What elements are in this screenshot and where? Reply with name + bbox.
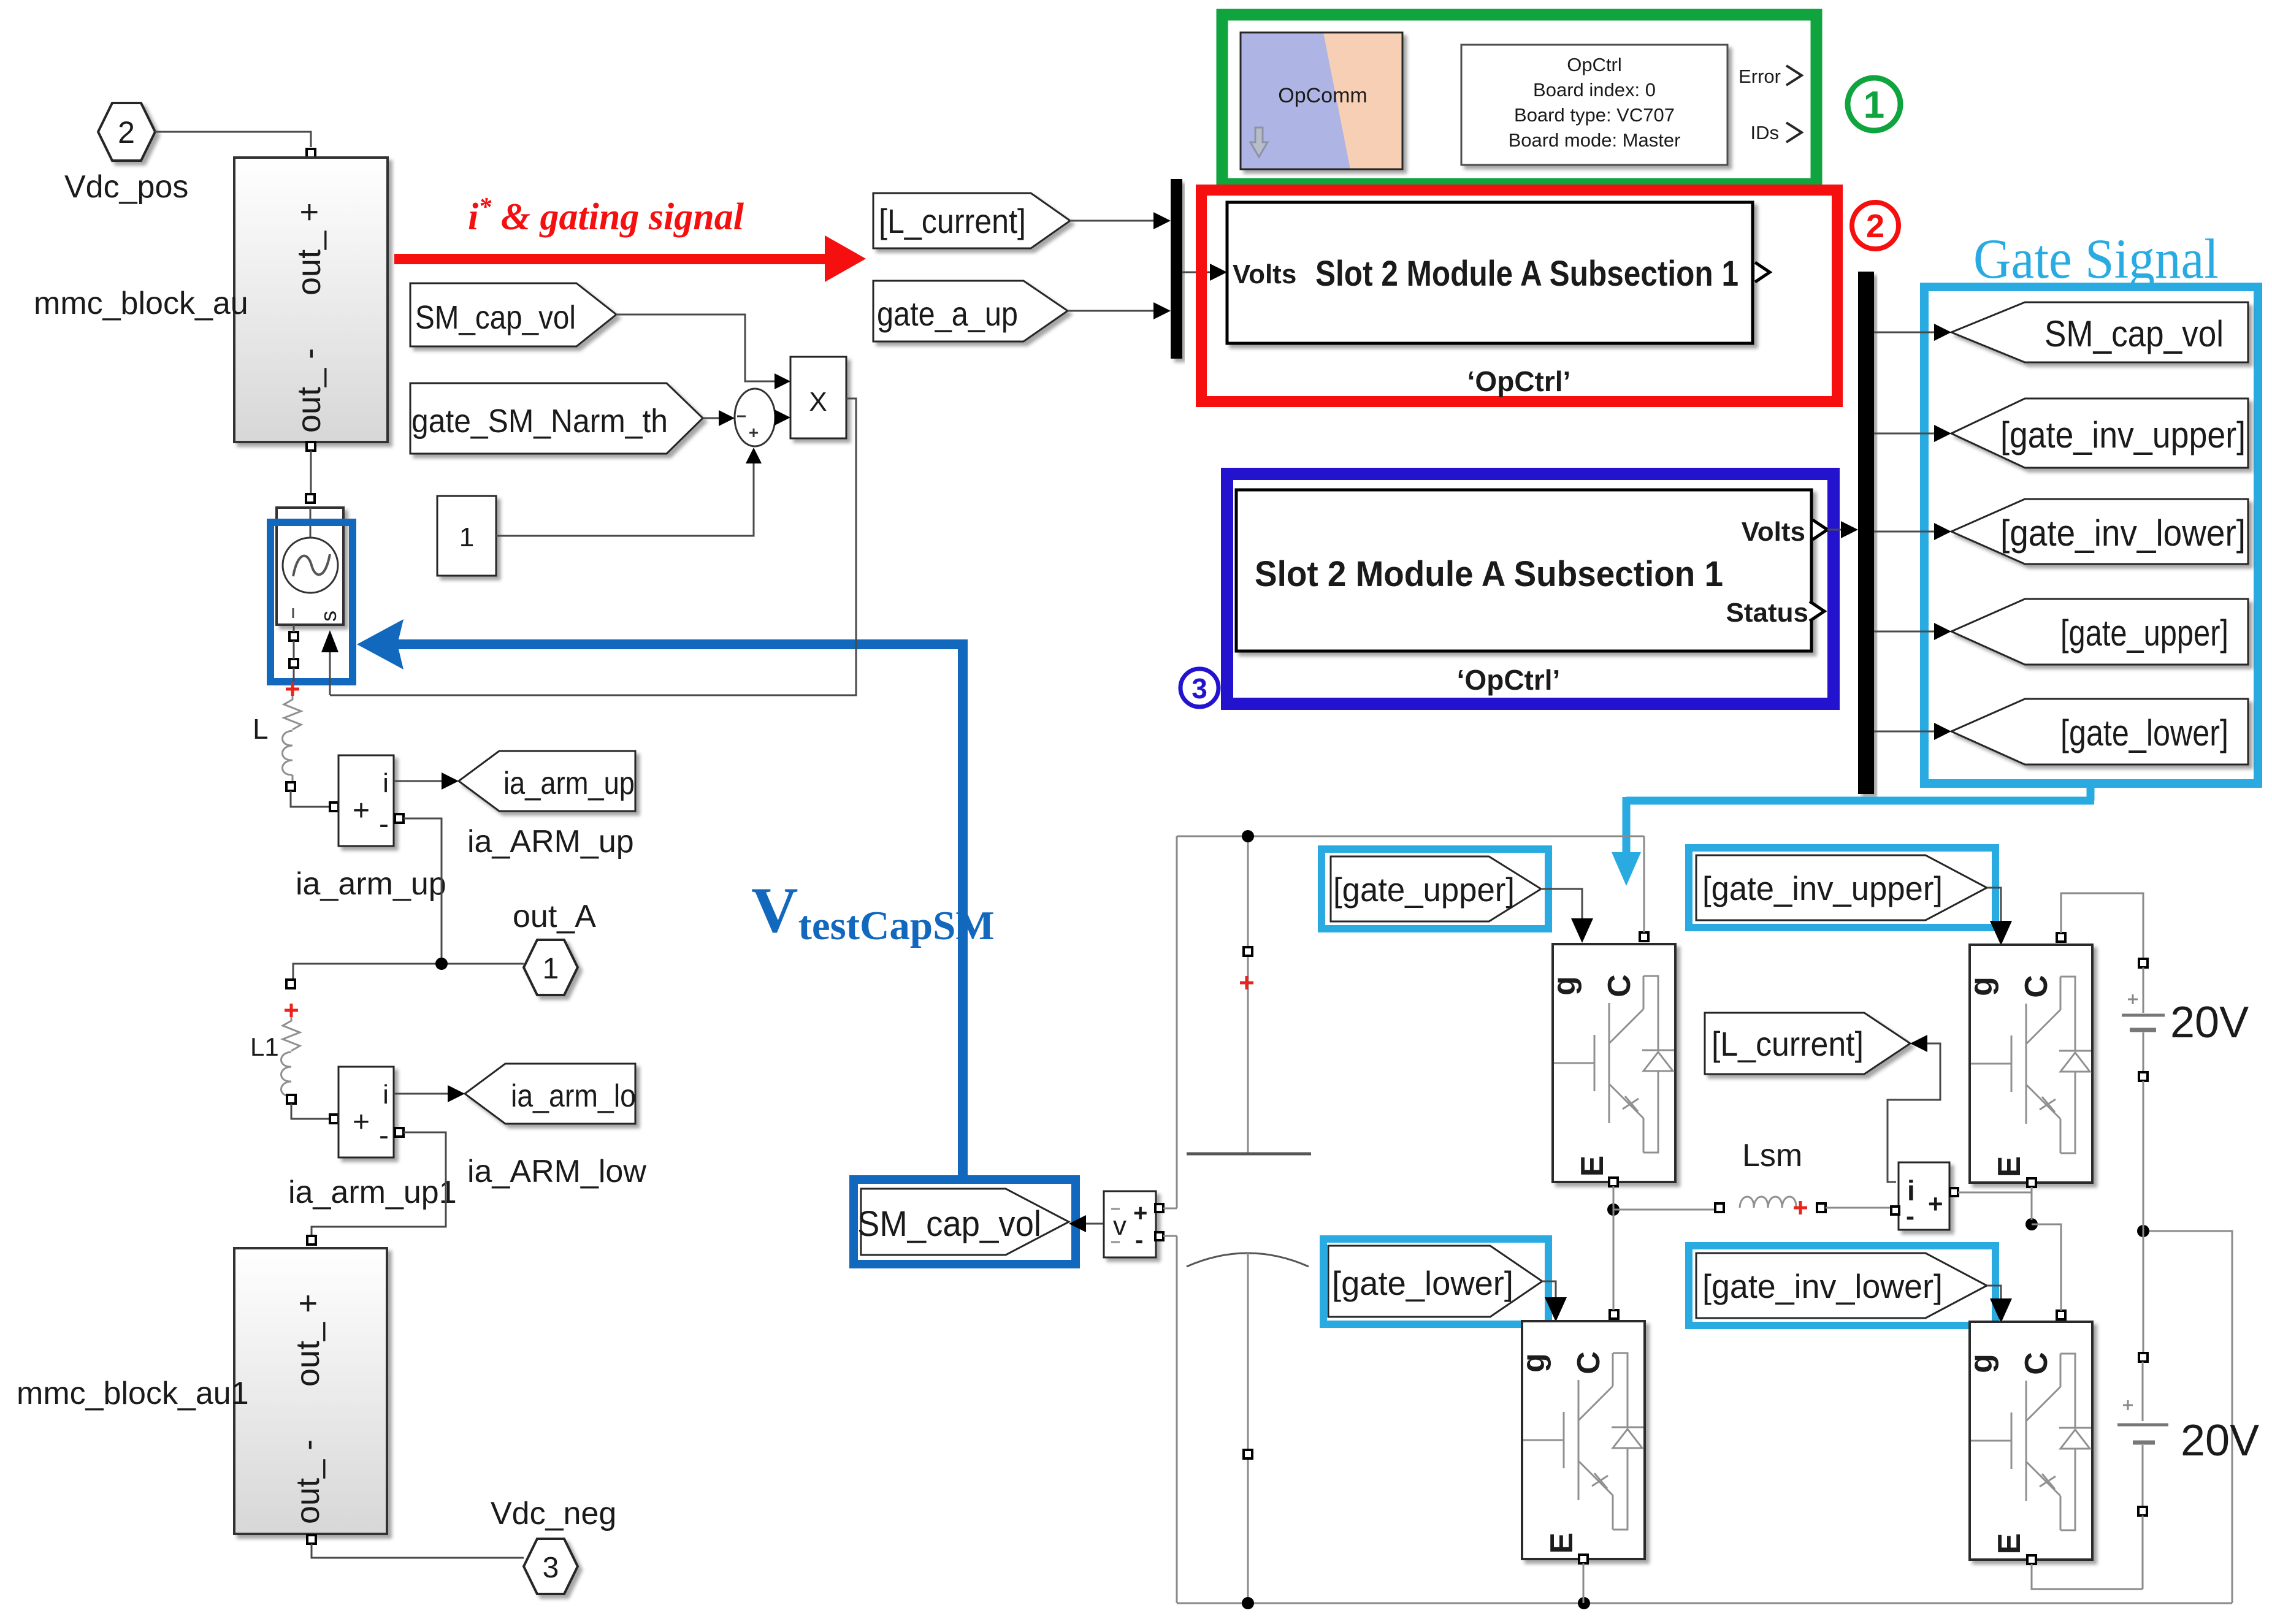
svg-text:[gate_inv_lower]: [gate_inv_lower]	[2000, 513, 2246, 554]
svg-text:[gate_inv_lower]: [gate_inv_lower]	[1702, 1267, 1943, 1305]
wire L1 to sum ia_arm_up1	[291, 1104, 330, 1119]
svg-text:2: 2	[118, 115, 135, 150]
svg-text:1: 1	[543, 953, 559, 985]
wire gate_inv_upper to U3 gate	[1987, 888, 2001, 922]
svg-text:SM_cap_vol: SM_cap_vol	[857, 1204, 1041, 1244]
svg-text:1: 1	[1864, 84, 1884, 126]
svg-text:-: -	[1906, 1202, 1914, 1230]
green box	[1222, 15, 1816, 184]
svg-text:ia_ARM_low: ia_ARM_low	[467, 1154, 646, 1189]
svg-text:out_ +: out_ +	[291, 202, 327, 295]
wire U1 E down to node	[1613, 1186, 1615, 1210]
wire hex2 to block	[155, 132, 311, 147]
svg-text:Board index: 0: Board index: 0	[1533, 79, 1656, 101]
goto tag ia_arm_up	[459, 751, 635, 811]
svg-text:Status: Status	[1726, 598, 1808, 628]
slot block (red)	[1227, 202, 1753, 343]
svg-text:ia_arm_up: ia_arm_up	[503, 766, 635, 801]
svg-text:i: i	[383, 1080, 389, 1110]
sum block ia_arm_up	[339, 755, 394, 846]
svg-text:out_ -: out_ -	[289, 1439, 326, 1524]
controlled voltage source block	[277, 508, 343, 625]
resistor-inductor L	[284, 696, 301, 730]
svg-text:20V: 20V	[2181, 1416, 2259, 1465]
wire i out to U3 E	[1958, 1187, 2032, 1220]
capacitor branch upper	[1247, 836, 1249, 1153]
cyan box [gate_lower]	[1323, 1239, 1548, 1324]
wire gate_SM_Narm_th to sum	[703, 417, 720, 419]
svg-text:[gate_inv_upper]: [gate_inv_upper]	[1702, 869, 1943, 907]
from tag [gate_inv_upper] (circuit)	[1696, 855, 1987, 920]
capacitor plates	[1187, 1153, 1311, 1156]
wire sum to product	[775, 417, 776, 419]
subsystem mmc_block_au	[234, 158, 388, 442]
wire sum minus out down to out_A node	[404, 818, 442, 964]
svg-text:i: i	[383, 768, 389, 798]
wires v block to rails	[1163, 1208, 1177, 1236]
svg-text:[gate_lower]: [gate_lower]	[2060, 712, 2228, 753]
from tag [L_current]	[873, 193, 1070, 248]
svg-text:+: +	[353, 795, 370, 827]
feedback wire from product to source	[330, 398, 856, 695]
wires mux2 to tags	[1874, 332, 1934, 731]
svg-text:‘OpCtrl’: ‘OpCtrl’	[1457, 664, 1561, 696]
IGBT U4 lower-right	[1964, 1322, 2092, 1560]
svg-text:+: +	[353, 1106, 370, 1138]
cyan wire from gate signal box down-left with arrow	[1626, 783, 2094, 853]
svg-text:ia_ARM_up: ia_ARM_up	[467, 824, 634, 860]
wire constant to sum plus input	[496, 462, 754, 536]
wire U3 C to battery 1	[2061, 893, 2143, 959]
svg-text:v: v	[1113, 1211, 1126, 1241]
svg-text:Slot 2 Module A Subsection 1: Slot 2 Module A Subsection 1	[1255, 554, 1723, 594]
battery 1 (20V)	[2143, 967, 2144, 1013]
sum block (circle)	[735, 389, 775, 446]
red box	[1201, 190, 1837, 402]
port 1 hexagon out_A	[524, 940, 578, 995]
blue box around SM_cap_vol goto	[854, 1180, 1076, 1264]
mux bar 2	[1858, 272, 1874, 794]
svg-text:3: 3	[1191, 673, 1207, 704]
svg-text:OpComm: OpComm	[1278, 84, 1367, 107]
red circle 2	[1852, 202, 1899, 249]
from tag SM_cap_vol (gate signal)	[1951, 302, 2248, 362]
from tag [L_current] (circuit)	[1705, 1013, 1910, 1074]
product block X	[790, 357, 846, 438]
sum block ia_arm_up1	[339, 1067, 394, 1157]
from tag [gate_upper] (circuit)	[1331, 856, 1541, 921]
svg-text:Board type: VC707: Board type: VC707	[1514, 104, 1675, 126]
wire SM_cap_vol to product	[616, 315, 776, 381]
top rail	[1177, 836, 1644, 837]
source bottom ports	[289, 632, 298, 641]
goto tag SM_cap_vol	[410, 283, 616, 346]
svg-text:-: -	[379, 808, 389, 841]
wire gate_a_up to mux	[1068, 310, 1155, 312]
constant 1 block	[437, 496, 496, 576]
svg-text:Lsm: Lsm	[1742, 1138, 1802, 1173]
svg-text:+: +	[1928, 1189, 1943, 1218]
wire sum2 i out to tag	[394, 1093, 449, 1095]
goto tag gate_SM_Narm_th	[410, 383, 703, 454]
svg-text:‘OpCtrl’: ‘OpCtrl’	[1467, 365, 1571, 397]
svg-text:Volts: Volts	[1233, 259, 1296, 289]
out_A wire	[293, 964, 524, 980]
svg-text:Slot 2 Module A Subsection 1: Slot 2 Module A Subsection 1	[1315, 254, 1738, 294]
svg-text:L: L	[253, 713, 269, 745]
svg-text:2: 2	[1866, 208, 1884, 245]
red plus near L1	[285, 1004, 298, 1017]
svg-text:gate_SM_Narm_th: gate_SM_Narm_th	[411, 403, 668, 440]
svg-text:X: X	[809, 387, 827, 417]
svg-text:OpCtrl: OpCtrl	[1567, 54, 1622, 75]
svg-text:L1: L1	[250, 1032, 279, 1061]
svg-text:Board mode: Master: Board mode: Master	[1509, 129, 1681, 151]
red thick arrow	[394, 254, 827, 264]
goto tag SM_cap_vol (measure)	[861, 1189, 1069, 1255]
svg-text:3: 3	[543, 1552, 559, 1584]
wire i block to L_current tag	[1888, 1043, 1940, 1182]
wire sum i out to tag	[394, 780, 443, 782]
port 3 hexagon Vdc_neg	[524, 1539, 578, 1594]
cyan box [gate_inv_lower]	[1689, 1246, 1995, 1325]
wire gate_inv_lower to U4 gate	[1987, 1286, 2001, 1300]
voltage measurement block v	[1104, 1191, 1156, 1257]
wire v block to tag	[1085, 1223, 1104, 1225]
green circle 1	[1848, 78, 1900, 131]
bottom port au1	[307, 1535, 316, 1544]
capacitor branch lower	[1247, 1253, 1249, 1603]
svg-text:[gate_inv_upper]: [gate_inv_upper]	[2000, 414, 2246, 456]
OpCtrl board block	[1461, 45, 1727, 165]
bottom rail	[1177, 1603, 2232, 1604]
svg-text:out_A: out_A	[513, 899, 596, 934]
svg-text:Vdc_neg: Vdc_neg	[491, 1496, 616, 1531]
goto tag ia_arm_lo	[465, 1064, 635, 1124]
svg-text:SM_cap_vol: SM_cap_vol	[415, 299, 576, 336]
svg-text:Gate Signal: Gate Signal	[1973, 227, 2219, 290]
mux bar 1	[1171, 179, 1182, 359]
wire node to U2 C	[1613, 1210, 1614, 1310]
cyan box	[1924, 287, 2258, 783]
svg-text:gate_a_up: gate_a_up	[877, 294, 1018, 333]
battery 2 (20V)	[2142, 1362, 2144, 1421]
svg-text:-: -	[379, 1119, 389, 1152]
from tag [gate_lower] (circuit)	[1328, 1246, 1542, 1317]
svg-text:1: 1	[459, 522, 474, 552]
wire gate_upper to U1 gate	[1541, 889, 1582, 920]
svg-text:s: s	[316, 611, 341, 622]
svg-text:ia_arm_lo: ia_arm_lo	[511, 1078, 636, 1114]
svg-text:Error: Error	[1738, 66, 1781, 87]
wire Volts out to mux2	[1827, 529, 1842, 531]
wire U1 C to top rail	[1643, 836, 1645, 932]
wire gate_lower to U2 gate	[1542, 1281, 1556, 1298]
blue highlight box around source	[270, 522, 353, 682]
svg-text:mmc_block_au: mmc_block_au	[34, 286, 248, 321]
svg-text:i* & gating signal: i* & gating signal	[468, 193, 744, 238]
svg-text:Vdc_pos: Vdc_pos	[64, 169, 188, 205]
wire sum2 minus to mmc_block_au1	[312, 1132, 446, 1236]
red plus near L	[286, 682, 299, 696]
from tag [gate_inv_upper]	[1951, 398, 2248, 468]
wire block to source	[310, 451, 312, 494]
junction dots	[1242, 830, 1254, 842]
IGBT U3 upper-right	[1964, 945, 2092, 1183]
wire battery node down to battery 2	[2143, 1231, 2144, 1353]
left rail upper / lower	[1176, 836, 1178, 1603]
resistor-inductor L1	[283, 1017, 300, 1051]
wire node to U4 C	[2032, 1224, 2061, 1311]
svg-text:SM_cap_vol: SM_cap_vol	[2044, 313, 2224, 354]
IGBT U2 lower-left	[1516, 1321, 1645, 1559]
svg-text:[L_current]: [L_current]	[879, 202, 1026, 240]
port 2 hexagon	[98, 103, 155, 161]
from tag gate_a_up	[873, 281, 1068, 341]
svg-text:[gate_lower]: [gate_lower]	[1332, 1264, 1513, 1302]
svg-text:[gate_upper]: [gate_upper]	[2060, 612, 2228, 654]
thick blue annotation arrow pointing left	[357, 619, 968, 669]
feedback wire arrowhead into source (from product)	[329, 651, 331, 695]
wire node to Lsm	[1613, 1209, 1715, 1211]
svg-text:+: +	[1133, 1200, 1147, 1227]
blue circle 3	[1180, 669, 1218, 707]
from tag [gate_lower]	[1951, 699, 2248, 764]
svg-text:[gate_upper]: [gate_upper]	[1333, 871, 1515, 909]
subsystem mmc_block_au1	[234, 1248, 387, 1534]
from tag [gate_upper]	[1951, 599, 2248, 665]
cyan box [gate_inv_upper]	[1689, 848, 1995, 928]
wire L_current to mux	[1070, 220, 1155, 222]
wire L to sum ia_arm_up	[291, 791, 330, 807]
svg-text:[L_current]: [L_current]	[1712, 1024, 1864, 1063]
svg-text:ia_arm_up1: ia_arm_up1	[288, 1175, 457, 1210]
svg-text:Volts: Volts	[1742, 517, 1805, 547]
blue box	[1227, 474, 1834, 704]
svg-text:ia_arm_up: ia_arm_up	[296, 866, 446, 902]
bottom port of mmc_block_au	[307, 442, 315, 451]
wire au1 to Vdc_neg	[312, 1544, 524, 1558]
svg-text:out_ +: out_ +	[289, 1294, 326, 1387]
slot block (blue)	[1236, 490, 1811, 651]
from tag [gate_inv_lower] (circuit)	[1696, 1253, 1987, 1318]
OpComm block	[1241, 32, 1402, 169]
wire mux to red block	[1182, 272, 1211, 273]
thick blue vertical line down to SM_cap_vol box	[958, 639, 968, 1182]
svg-text:out_ -: out_ -	[291, 348, 327, 433]
IGBT U1 upper-left	[1547, 944, 1675, 1182]
from tag [gate_inv_lower]	[1951, 499, 2248, 564]
wire U2 E to bottom rail	[1583, 1563, 1585, 1603]
wire Lsm to i block	[1826, 1207, 1895, 1209]
current measurement block i	[1899, 1162, 1949, 1230]
svg-text:-: -	[1135, 1227, 1143, 1254]
svg-text:mmc_block_au1: mmc_block_au1	[17, 1376, 249, 1411]
svg-text:20V: 20V	[2170, 998, 2249, 1047]
far right riser	[2143, 1231, 2232, 1603]
svg-text:IDs: IDs	[1751, 122, 1780, 143]
cyan box [gate_upper]	[1322, 849, 1548, 929]
wire U4 E to battery 2 bottom	[2032, 1564, 2143, 1589]
